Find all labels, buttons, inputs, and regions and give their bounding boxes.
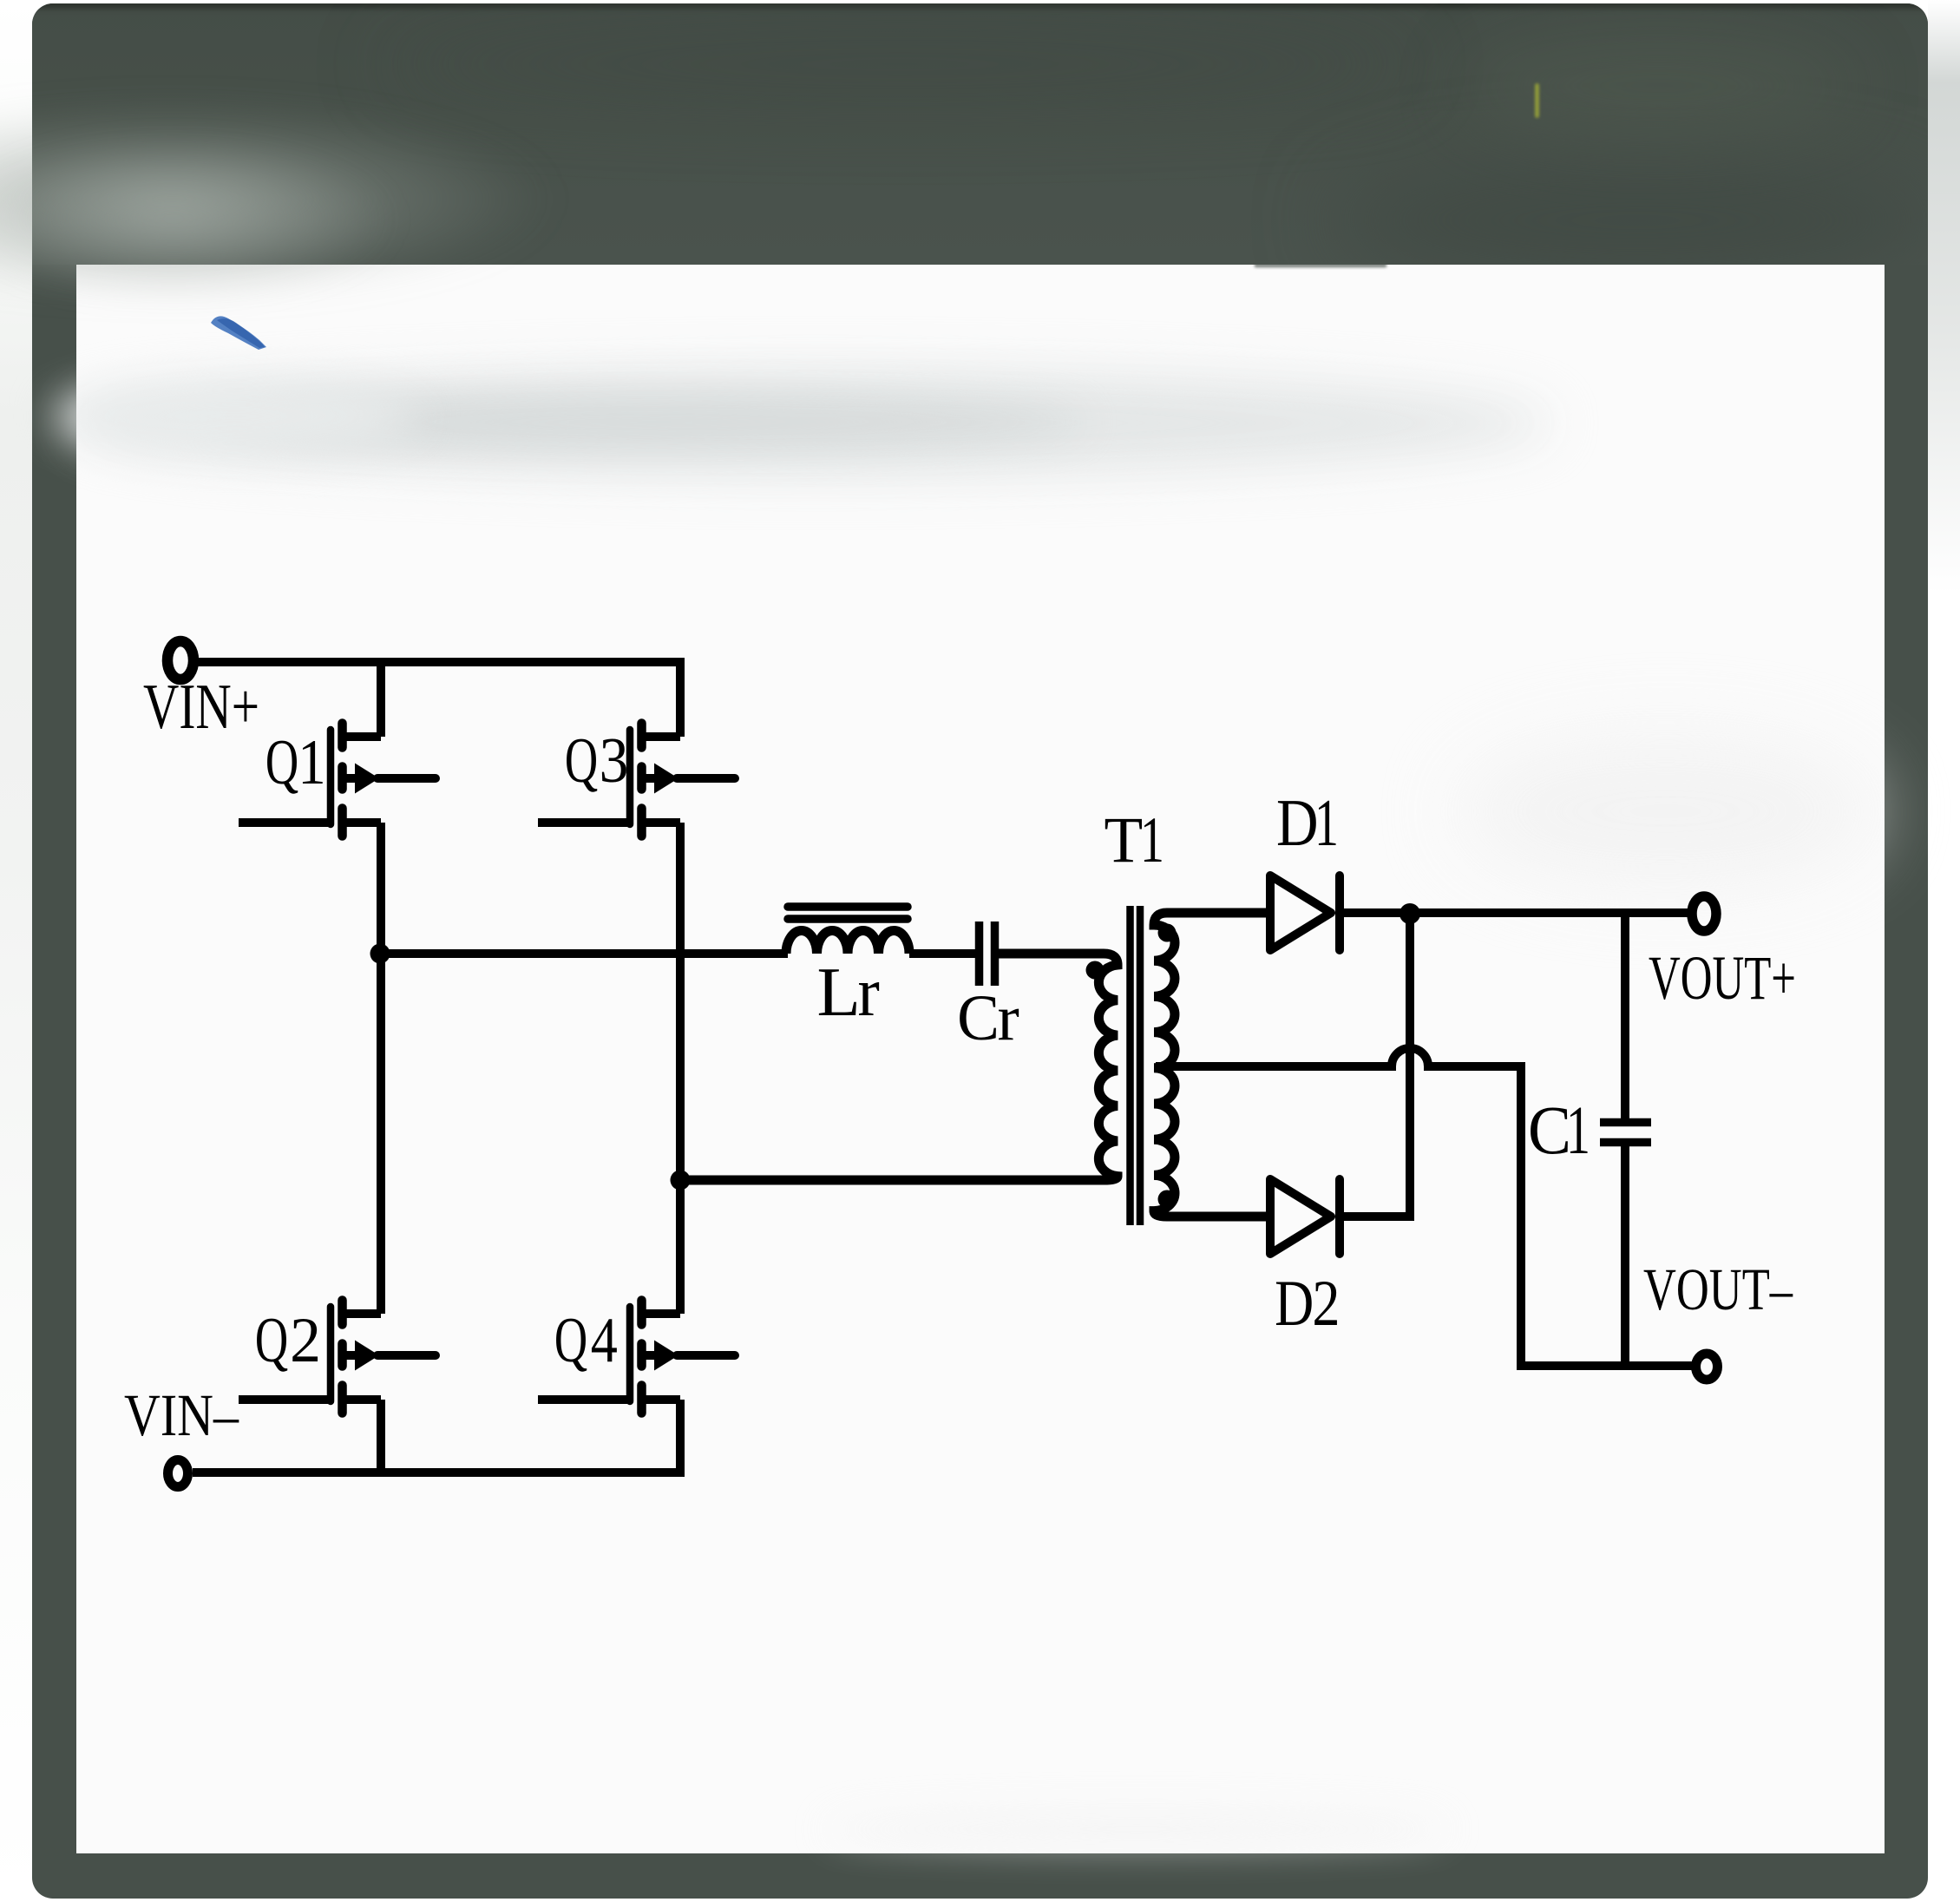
transistor Q2 (239, 1301, 436, 1413)
svg-text:1: 1 (298, 727, 325, 798)
svg-text:VIN–: VIN– (124, 1382, 239, 1448)
wire D2 cathode up to D1 node (1340, 913, 1410, 1217)
wire left leg vertical node A to Q2 drain (377, 954, 385, 1314)
top band gradient (32, 3, 1928, 265)
svg-text:L: L (817, 954, 861, 1031)
diode D1 triangle (1270, 876, 1331, 950)
transformer T1 core line right (1137, 906, 1144, 1225)
svg-text:3: 3 (600, 725, 629, 797)
svg-text:C: C (1528, 1093, 1571, 1169)
capacitor C1 bottom plate (1600, 1138, 1651, 1147)
transformer T1 secondary winding top lead to D1 and bottom lead to D2 (1154, 913, 1270, 1217)
transistor Q3 (538, 724, 735, 836)
inductor Lr winding (786, 931, 909, 954)
svg-text:1: 1 (1314, 785, 1339, 860)
wire top rail VIN+ to Q3 drain corner (197, 662, 680, 737)
svg-text:C: C (957, 982, 1000, 1054)
terminal VIN- (168, 1460, 188, 1487)
wire Q1 source vertical (377, 823, 385, 954)
blue pen mark (211, 316, 266, 350)
wire bottom rail VIN- to Q4 source corner (193, 1400, 680, 1472)
capacitor Cr left plate (975, 921, 984, 986)
wire D1 cathode to VOUT+ (1340, 908, 1688, 917)
transformer T1 primary polarity dot (1086, 961, 1105, 980)
svg-text:2: 2 (290, 1305, 321, 1376)
wire center tap with hop over D1-D2 link then down to VOUT- rail (1156, 1048, 1692, 1366)
svg-text:2: 2 (1312, 1268, 1340, 1340)
svg-text:Q: Q (565, 725, 598, 797)
wire right leg vertical Q3 source to Q4 drain (676, 823, 685, 1314)
transistor Q4 (538, 1301, 735, 1413)
terminal VOUT- (1696, 1354, 1718, 1380)
diode D1 cathode bar (1335, 876, 1344, 950)
wire mid rail node A to Lr (380, 949, 788, 958)
svg-text:r: r (998, 982, 1019, 1054)
capacitor C1 top plate (1600, 1118, 1651, 1127)
svg-text:VIN+: VIN+ (143, 672, 259, 743)
node A junction dot (370, 944, 390, 964)
inductor Lr core bar upper (788, 902, 908, 911)
inductor Lr core bar lower (788, 915, 908, 923)
svg-text:D: D (1276, 785, 1319, 860)
svg-text:VOUT+: VOUT+ (1649, 943, 1796, 1013)
dark line remnant under band (1255, 264, 1386, 267)
transistor Q1 (239, 724, 436, 836)
node B junction dot (671, 1171, 691, 1190)
diode D2 cathode bar (1335, 1179, 1344, 1254)
transformer T1 core line left (1126, 906, 1134, 1225)
diode D2 triangle (1270, 1179, 1331, 1254)
wire C1 to VOUT- rail (1621, 1146, 1629, 1366)
svg-text:Q: Q (265, 727, 298, 798)
wire Q2 source vertical (377, 1400, 385, 1477)
white page (76, 265, 1885, 1853)
junction dot D1 cathode node (1400, 903, 1420, 924)
svg-text:D: D (1275, 1268, 1314, 1340)
svg-text:1: 1 (1140, 804, 1164, 876)
wire Lr to Cr (909, 949, 975, 958)
left haze over band (0, 61, 868, 312)
wire VOUT+ branch down to C1 (1621, 913, 1629, 1118)
svg-text:r: r (858, 954, 880, 1031)
small yellow-green dash (1535, 83, 1539, 118)
terminal VIN+ (167, 641, 193, 679)
svg-text:Q: Q (554, 1305, 587, 1376)
left white strip gradient (0, 0, 32, 1902)
wire Q1 drain vertical (377, 662, 385, 737)
svg-text:Q: Q (255, 1305, 288, 1376)
transformer T1 secondary bottom polarity dot (1158, 1190, 1177, 1209)
svg-text:VOUT–: VOUT– (1643, 1256, 1793, 1322)
page blur streaks (78, 373, 1553, 473)
svg-text:4: 4 (591, 1305, 618, 1376)
wire Cr to T1 primary and primary winding and wire to node B (680, 954, 1118, 1180)
capacitor Cr right plate (991, 921, 1000, 986)
svg-text:1: 1 (1566, 1093, 1590, 1169)
terminal VOUT+ (1692, 896, 1716, 931)
transformer T1 secondary top polarity dot (1158, 924, 1177, 942)
svg-text:T: T (1105, 804, 1144, 876)
right strip gradient (1928, 0, 1960, 824)
